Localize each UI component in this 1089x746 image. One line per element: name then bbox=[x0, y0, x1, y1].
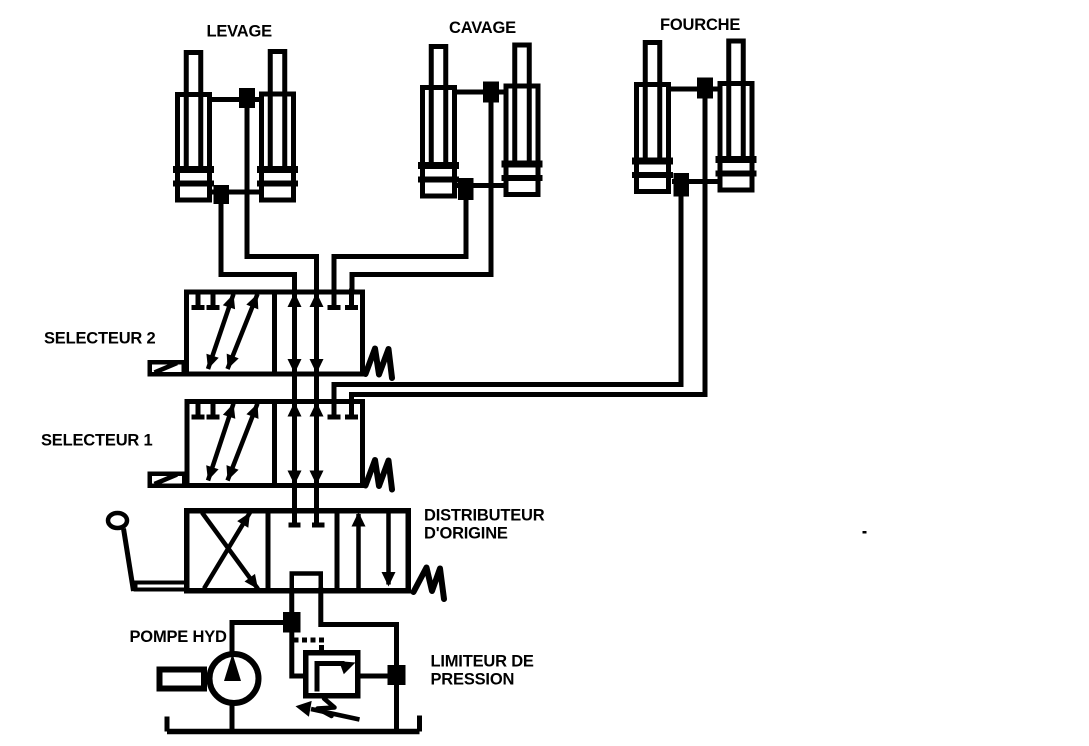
SELECTEUR 2 cell divider bbox=[272, 292, 277, 375]
wire distributor T port to tank bbox=[321, 590, 397, 732]
node LEVAGE rod-end junction bbox=[239, 88, 255, 108]
distributor straight flow up arrow bbox=[356, 514, 361, 588]
wire pump case drain to tank bbox=[230, 704, 235, 734]
wire LEVAGE rod-end to selecteur2 port B bbox=[247, 106, 317, 292]
distributor lever arm bbox=[124, 529, 134, 592]
node limiter outlet junction bbox=[388, 665, 406, 685]
svg-text:D'ORIGINE: D'ORIGINE bbox=[424, 525, 508, 543]
cylinder FOURCHE left bbox=[632, 43, 673, 192]
SELECTEUR 2 closed port T1 bbox=[196, 292, 201, 306]
SELECTEUR 2 closed port T4 bbox=[349, 289, 354, 306]
distributor lever base bbox=[136, 583, 187, 590]
SELECTEUR 1 pass line arrows bbox=[288, 402, 302, 417]
SELECTEUR 1 return spring bbox=[366, 460, 393, 490]
svg-text:CAVAGE: CAVAGE bbox=[449, 19, 516, 37]
wire pass line 2 (selecteur2/1 to distributor) bbox=[314, 257, 319, 524]
SELECTEUR 2 return spring bbox=[366, 349, 393, 379]
cylinder LEVAGE right bbox=[257, 52, 298, 201]
svg-text:LEVAGE: LEVAGE bbox=[207, 23, 273, 41]
distributor crossed arrow 2 bbox=[204, 513, 250, 589]
SELECTEUR 2 cross-flow arrow 2 bbox=[228, 294, 258, 369]
svg-text:DISTRIBUTEUR: DISTRIBUTEUR bbox=[424, 507, 545, 525]
wire pass line 1 (selecteur2/1 to distributor) bbox=[292, 275, 297, 524]
pump flow triangle bbox=[224, 654, 241, 682]
svg-text:PRESSION: PRESSION bbox=[431, 671, 515, 689]
node pump outlet junction bbox=[283, 612, 301, 633]
distributor lever knob bbox=[108, 513, 127, 528]
stray dash mark bbox=[863, 531, 867, 534]
wire distributor P port down to pump junction bbox=[289, 590, 294, 613]
cylinder FOURCHE right bbox=[716, 41, 757, 190]
wire FOURCHE piston-end cross link bbox=[672, 179, 720, 184]
tank reservoir line bbox=[167, 716, 420, 732]
valve LIMITEUR DE PRESSION body bbox=[296, 653, 360, 720]
cylinder CAVAGE right bbox=[502, 45, 543, 195]
tank right tick bbox=[417, 716, 422, 732]
valve SELECTEUR 2 body bbox=[150, 289, 392, 379]
wire junction to limiter inlet bbox=[292, 630, 304, 676]
SELECTEUR 1 cell divider bbox=[272, 401, 277, 486]
SELECTEUR 1 closed port T2 bbox=[211, 401, 216, 415]
wire LEVAGE piston-end cross link bbox=[212, 190, 262, 195]
SELECTEUR 1 closed port T1 bbox=[196, 401, 201, 415]
distributor divider 1 bbox=[266, 510, 271, 592]
SELECTEUR 2 cross-flow arrow 1 bbox=[208, 294, 234, 369]
pilot dotted line bbox=[294, 638, 325, 651]
node CAVAGE rod-end junction bbox=[483, 82, 499, 103]
limiter adjustment arrow bbox=[311, 709, 360, 720]
wire CAVAGE rod-end to selecteur2 port D bbox=[352, 100, 491, 292]
node FOURCHE piston-end junction bbox=[674, 173, 690, 197]
wire CAVAGE piston-end cross link bbox=[457, 183, 506, 188]
node LEVAGE piston-end junction bbox=[214, 185, 230, 204]
pump inlet block bbox=[160, 670, 205, 689]
SELECTEUR 1 cross-flow arrow 1 bbox=[208, 404, 234, 481]
SELECTEUR 2 closed port T2 bbox=[211, 292, 216, 306]
cylinder CAVAGE left bbox=[418, 47, 459, 197]
distributor blocked port bar 2 bbox=[312, 523, 325, 528]
tank left tick bbox=[165, 717, 170, 732]
pump POMPE HYD circle bbox=[210, 654, 259, 703]
wire FOURCHE rod-end to selecteur1 port D bbox=[352, 96, 706, 401]
SELECTEUR 2 manual actuator bbox=[150, 362, 184, 374]
SELECTEUR 2 pass line arrows bbox=[288, 293, 302, 308]
wire FOURCHE piston-end to selecteur1 port C bbox=[334, 194, 681, 401]
svg-text:POMPE HYD: POMPE HYD bbox=[130, 628, 228, 646]
wire CAVAGE rod-end cross link bbox=[454, 90, 506, 95]
limiter spring zigzag bbox=[318, 699, 335, 717]
valve DISTRIBUTEUR D'ORIGINE body bbox=[108, 510, 444, 599]
wire LEVAGE rod-end cross link bbox=[210, 97, 262, 102]
node CAVAGE piston-end junction bbox=[458, 178, 474, 200]
SELECTEUR 1 manual actuator bbox=[150, 474, 185, 486]
cylinder LEVAGE left bbox=[173, 53, 214, 201]
distributor divider 2 bbox=[335, 510, 340, 592]
SELECTEUR 1 closed port T3 bbox=[332, 398, 337, 415]
node FOURCHE rod-end junction bbox=[697, 78, 713, 99]
svg-text:LIMITEUR DE: LIMITEUR DE bbox=[431, 653, 534, 671]
valve SELECTEUR 1 body bbox=[150, 398, 392, 490]
wire pump outlet to junction bbox=[232, 623, 283, 652]
wire CAVAGE piston-end to selecteur2 port C bbox=[334, 198, 466, 292]
wire LEVAGE piston-end to selecteur2 port A bbox=[221, 202, 295, 292]
distributor P/T port box bbox=[292, 574, 321, 591]
svg-text:SELECTEUR 2: SELECTEUR 2 bbox=[44, 330, 156, 348]
svg-text:FOURCHE: FOURCHE bbox=[660, 16, 740, 34]
wire FOURCHE rod-end cross link bbox=[668, 87, 720, 92]
SELECTEUR 1 closed port T4 bbox=[349, 398, 354, 415]
distributor crossed arrow 1 bbox=[202, 513, 258, 590]
distributor straight flow down arrow bbox=[386, 511, 391, 585]
limiter internal flow arrow bbox=[317, 664, 342, 690]
distributor blocked port bar 1 bbox=[289, 523, 301, 528]
distributor return spring bbox=[414, 568, 445, 600]
wire limiter outlet bbox=[361, 674, 390, 679]
SELECTEUR 1 cross-flow arrow 2 bbox=[228, 404, 258, 481]
SELECTEUR 2 closed port T3 bbox=[332, 289, 337, 306]
svg-text:SELECTEUR 1: SELECTEUR 1 bbox=[41, 432, 153, 450]
